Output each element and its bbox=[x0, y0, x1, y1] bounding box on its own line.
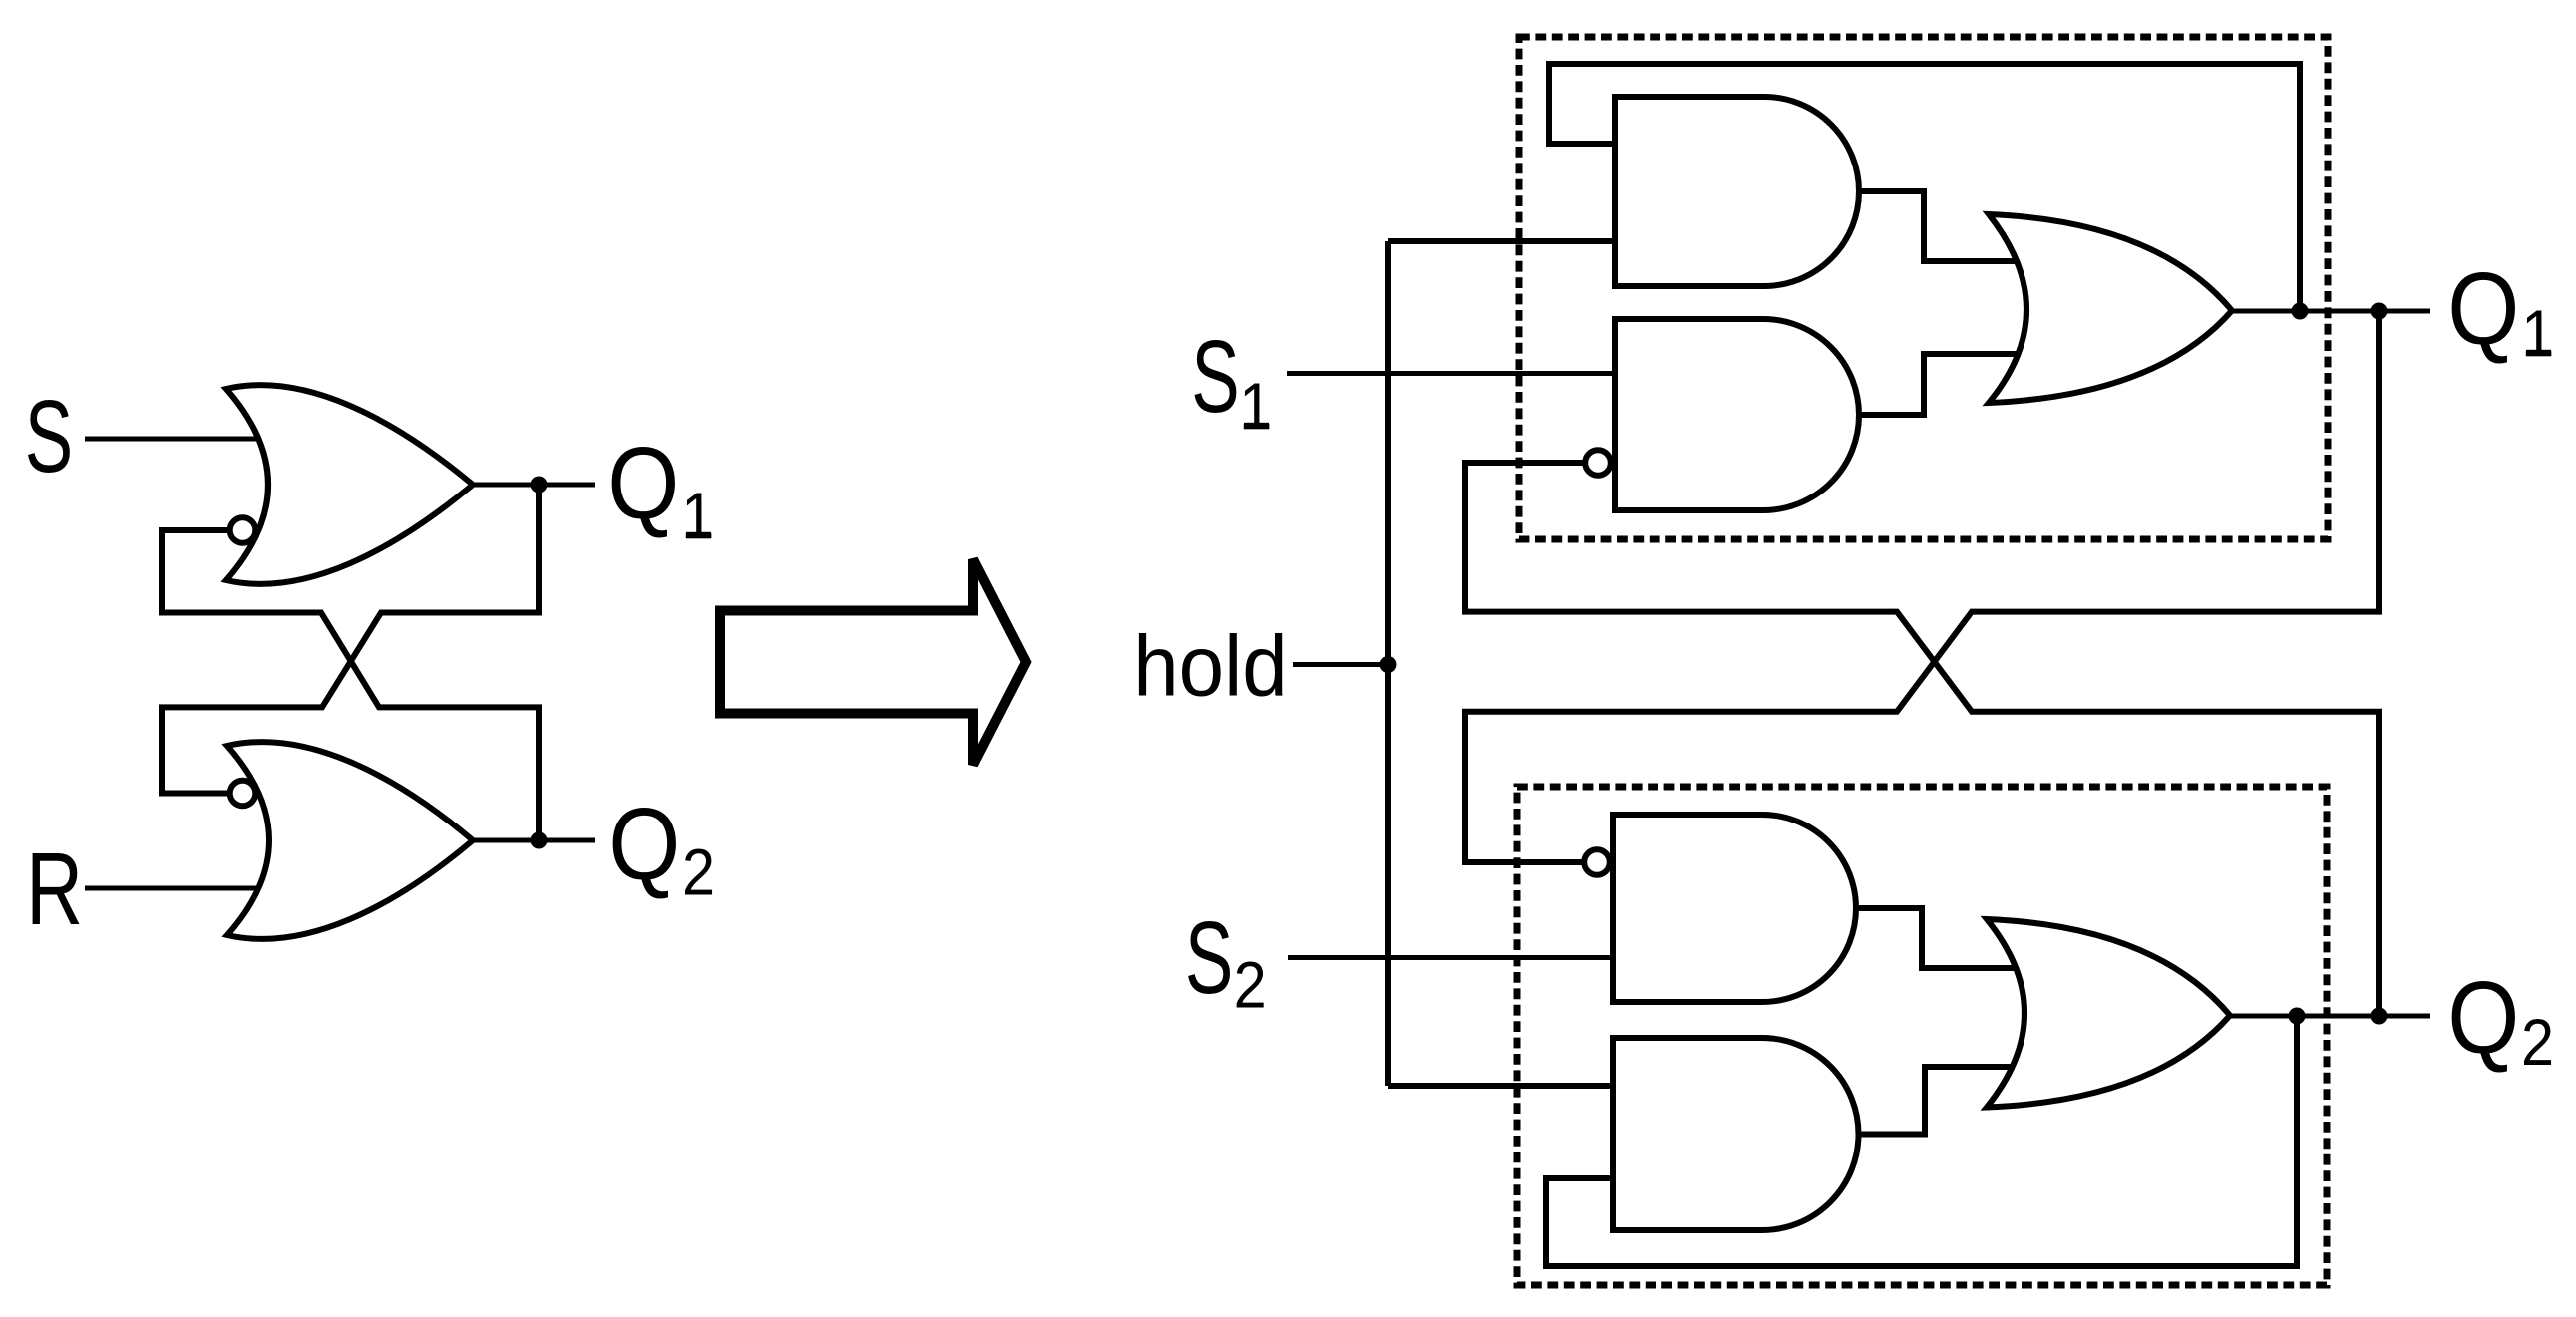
svg-text:Q: Q bbox=[608, 786, 680, 901]
svg-text:R: R bbox=[26, 832, 83, 947]
svg-text:S: S bbox=[1191, 318, 1239, 434]
svg-text:S: S bbox=[1185, 899, 1233, 1015]
svg-text:Q: Q bbox=[2447, 250, 2519, 366]
svg-text:hold: hold bbox=[1133, 617, 1287, 713]
svg-text:1: 1 bbox=[681, 480, 714, 553]
svg-text:2: 2 bbox=[682, 836, 715, 910]
svg-text:Q: Q bbox=[2447, 959, 2519, 1075]
svg-text:Q: Q bbox=[607, 425, 679, 540]
svg-text:S: S bbox=[25, 378, 73, 494]
svg-text:2: 2 bbox=[2521, 1006, 2554, 1080]
svg-text:2: 2 bbox=[1234, 949, 1267, 1023]
svg-text:1: 1 bbox=[2521, 297, 2554, 371]
svg-text:1: 1 bbox=[1239, 370, 1272, 444]
